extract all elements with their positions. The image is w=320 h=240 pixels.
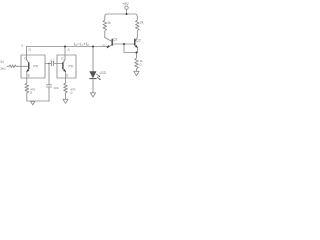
base bar Q1	[111, 39, 113, 46]
transistor Q1	[105, 38, 112, 42]
junction: supply to rail	[126, 13, 128, 15]
svg-text:→I₀: →I₀	[100, 43, 106, 47]
svg-text:100: 100	[54, 86, 59, 90]
svg-text:2k: 2k	[107, 21, 111, 25]
base bar Q2	[134, 39, 136, 46]
wire: interstage	[45, 63, 57, 65]
transistor TR2	[63, 60, 65, 64]
svg-text:2k: 2k	[140, 21, 144, 25]
wire: stage2 collector up to rail	[64, 47, 66, 60]
LED light arrows	[96, 74, 100, 80]
emitter arrows	[26, 45, 138, 72]
junction: emitter node	[136, 52, 138, 54]
box TR2 (stage 2)	[57, 55, 76, 78]
arrow TR2	[63, 69, 66, 72]
svg-text:I₁: I₁	[21, 44, 23, 48]
capacitor C1 (coupling)	[52, 61, 54, 65]
wire: main summing rail	[27, 46, 108, 48]
wire: LED to ground	[92, 79, 94, 93]
+9V supply terminal	[125, 6, 128, 9]
wire: drop to bypass cap	[48, 64, 50, 85]
arrow Q1	[107, 45, 110, 48]
resistor R3 (emitter to ground)	[135, 57, 139, 71]
wire: stage1 emitter chain	[26, 78, 28, 83]
resistor R1 (left collector)	[103, 17, 107, 38]
svg-text:Q2: Q2	[136, 38, 141, 42]
svg-text:I₀=I₁+I₂: I₀=I₁+I₂	[74, 42, 89, 47]
input resistor Rin	[7, 65, 21, 68]
wire: stage2 emitter chain	[65, 78, 67, 83]
svg-text:1kΩ: 1kΩ	[0, 66, 6, 70]
wire: terminal to top rail	[126, 9, 128, 14]
svg-text:LED: LED	[100, 71, 107, 75]
ground (right)	[134, 71, 139, 75]
resistor R4 (stage1 emitter)	[25, 83, 29, 101]
resistor R2 (right collector)	[136, 17, 140, 38]
wire: base node down to emitter node	[124, 44, 137, 53]
wire: LED branch	[92, 47, 94, 72]
wire: emitter node to R3	[136, 53, 138, 58]
resistor R5 (stage2 emitter)	[64, 83, 68, 99]
arrow TR1	[26, 69, 29, 72]
wire: bottom rail	[27, 100, 49, 102]
box TR1 (stage 1)	[21, 55, 45, 78]
junction dots	[48, 13, 137, 64]
ground (left bottom)	[31, 101, 35, 105]
ground (LED)	[90, 93, 95, 97]
wire: cap to bottom rail	[48, 87, 50, 101]
junction: stage2 collector at rail	[64, 46, 66, 48]
wire: stage1 collector up to rail	[26, 47, 28, 60]
base bar TR2	[62, 62, 64, 69]
wire: top rail	[105, 14, 138, 17]
transistor TR1	[27, 60, 29, 64]
ground (stage 2)	[63, 99, 68, 103]
svg-text:Q1: Q1	[113, 37, 118, 41]
svg-text:+9V: +9V	[122, 2, 129, 6]
svg-text:↓I₁: ↓I₁	[28, 48, 32, 52]
junction: LED branch at rail	[92, 46, 94, 48]
svg-text:0.1: 0.1	[51, 59, 56, 63]
LED D1	[90, 72, 96, 78]
junction: interstage drop	[48, 63, 49, 64]
transistor Q2	[135, 38, 137, 42]
capacitor C2 (bypass 100)	[47, 85, 52, 87]
transistor base bars	[29, 39, 135, 70]
base bar TR1	[28, 62, 30, 69]
junction: base tie	[123, 43, 125, 45]
arrow Q2	[135, 45, 138, 48]
wire: Q1 base to Q2 base	[113, 43, 135, 45]
